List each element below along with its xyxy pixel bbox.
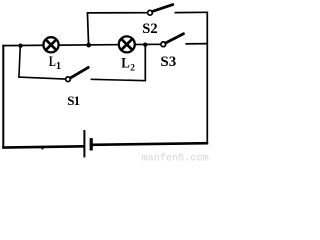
wire: S1 branch horizontal right of switch bbox=[91, 79, 146, 80]
wire: top horizontal right of S2 bbox=[175, 11, 209, 13]
wire: left vertical bbox=[2, 45, 4, 149]
label L1 bbox=[49, 53, 61, 72]
wire: S1 branch right vertical bbox=[144, 45, 146, 81]
wire: S2 branch vertical bbox=[87, 12, 88, 45]
node A junction dot (left, main wire) bbox=[18, 44, 22, 48]
svg-text:1: 1 bbox=[56, 61, 61, 72]
svg-text:L: L bbox=[121, 56, 130, 72]
wire: bottom left of battery bbox=[2, 146, 83, 147]
wire: S3 right segment bbox=[185, 43, 208, 45]
wire: S1 branch left vertical bbox=[19, 46, 20, 78]
wire: top horizontal left of S2 bbox=[87, 12, 148, 14]
switch S3 bbox=[161, 34, 184, 47]
lamp L2 bbox=[119, 36, 135, 52]
wire: bottom right of battery bbox=[92, 143, 208, 145]
battery long plate (positive) bbox=[83, 130, 85, 157]
wire: right vertical bbox=[206, 12, 208, 145]
svg-text:manfen5.com: manfen5.com bbox=[142, 153, 209, 164]
switch S1 bbox=[66, 67, 89, 81]
label L2 bbox=[121, 56, 135, 74]
node C junction dot (right of L2) bbox=[143, 43, 147, 47]
battery short plate (negative) bbox=[90, 138, 93, 150]
svg-text:S1: S1 bbox=[67, 93, 79, 108]
wire: small tick artifact on bottom wire bbox=[41, 147, 43, 149]
node B junction dot (S2 branch on main wire) bbox=[86, 43, 91, 48]
svg-text:L: L bbox=[49, 53, 56, 69]
svg-text:2: 2 bbox=[130, 63, 135, 73]
wire: main horizontal (battery top loop) bbox=[2, 44, 161, 45]
svg-text:S2: S2 bbox=[142, 21, 157, 37]
wire: S1 branch horizontal left of switch bbox=[18, 77, 65, 79]
svg-text:S3: S3 bbox=[160, 54, 176, 70]
switch S2 bbox=[148, 5, 173, 16]
lamp L1 bbox=[43, 37, 58, 52]
